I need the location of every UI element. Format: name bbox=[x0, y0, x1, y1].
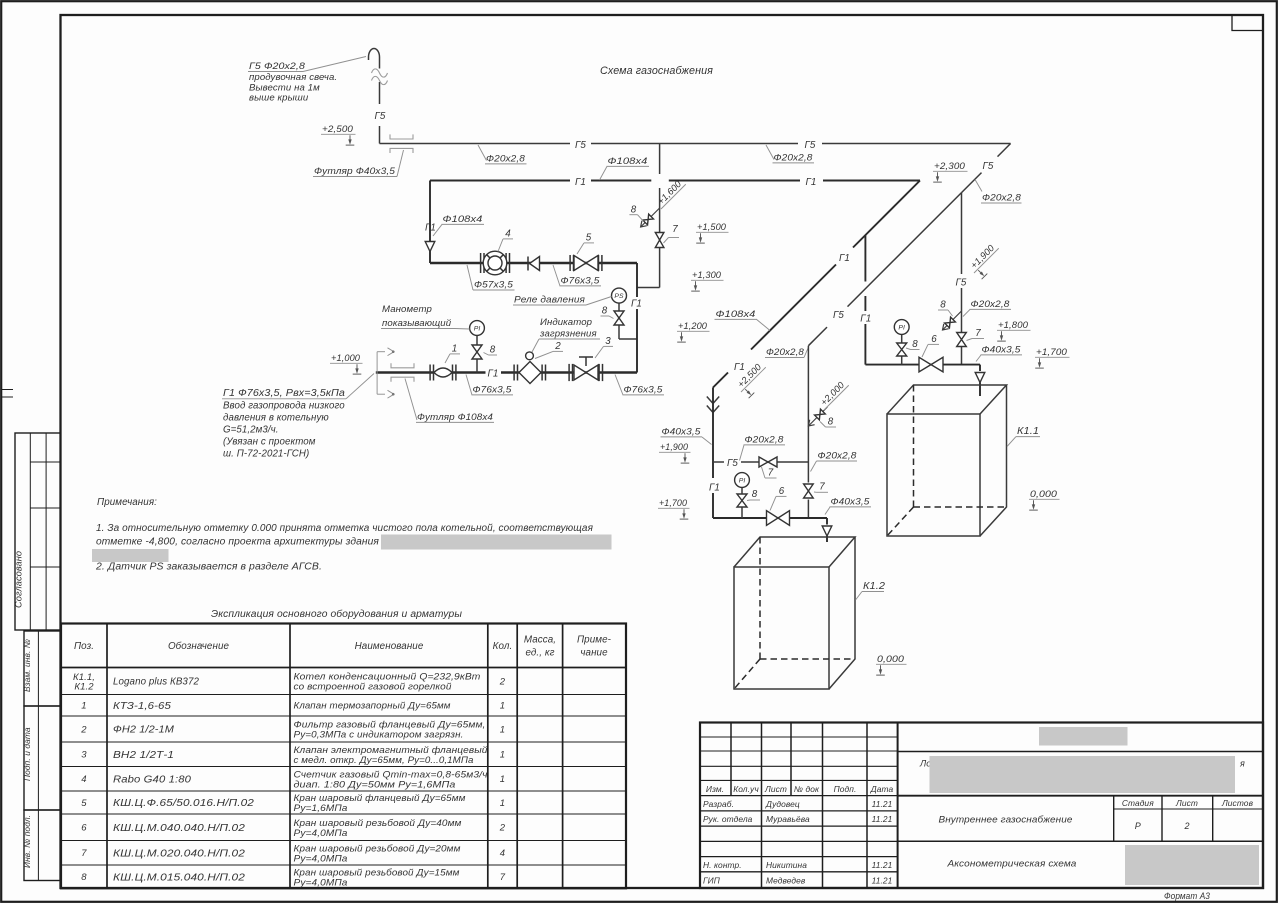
boiler K1.2 top face bbox=[734, 537, 855, 567]
K1.2 manifold pipe bbox=[713, 517, 827, 519]
svg-text:Г5: Г5 bbox=[983, 161, 994, 172]
flow arrows Г1 drop K1.2 bbox=[707, 397, 719, 404]
svg-text:Листов: Листов bbox=[1221, 798, 1254, 808]
svg-text:8: 8 bbox=[752, 489, 758, 500]
svg-text:(Увязан с проектом: (Увязан с проектом bbox=[223, 437, 316, 448]
svg-text:Изм.: Изм. bbox=[706, 784, 724, 794]
svg-text:4: 4 bbox=[81, 774, 86, 785]
svg-text:К1.2: К1.2 bbox=[74, 682, 94, 693]
svg-text:Г1: Г1 bbox=[488, 368, 499, 379]
stamp box Взам. инв. № bbox=[24, 631, 61, 706]
svg-text:5: 5 bbox=[81, 798, 87, 809]
gauge PI K1.2 bbox=[735, 473, 750, 488]
stamp box Подп. и дата bbox=[24, 706, 61, 810]
svg-text:Г5: Г5 bbox=[805, 140, 816, 151]
svg-text:Футляр Ф108х4: Футляр Ф108х4 bbox=[417, 412, 493, 423]
title block outline bbox=[700, 723, 1263, 889]
valve 7 on purge riser bbox=[655, 233, 664, 248]
riser Г1 to boiler K1.1 bbox=[864, 235, 866, 282]
svg-text:Г1: Г1 bbox=[425, 223, 436, 234]
svg-text:КШ.Ц.М.015.040.Н/П.02: КШ.Ц.М.015.040.Н/П.02 bbox=[113, 872, 246, 883]
valve 5 bbox=[574, 256, 598, 271]
redaction box note line 2 bbox=[381, 535, 612, 550]
svg-text:0,000: 0,000 bbox=[877, 654, 905, 664]
pipe break symbol bbox=[372, 69, 388, 77]
svg-text:ш. П-72-2021-ГСН): ш. П-72-2021-ГСН) bbox=[223, 449, 309, 460]
solenoid actuator bbox=[585, 357, 587, 366]
svg-text:Ввод газопровода низкого: Ввод газопровода низкого bbox=[223, 401, 345, 412]
svg-text:11.21: 11.21 bbox=[872, 860, 893, 870]
svg-text:7: 7 bbox=[81, 848, 87, 859]
casing sleeve at roof bbox=[390, 134, 413, 139]
svg-text:отметке -4,800, согласно проек: отметке -4,800, согласно проекта архитек… bbox=[96, 537, 380, 548]
svg-text:Г1 Ф76х3,5, Рвх=3,5кПа: Г1 Ф76х3,5, Рвх=3,5кПа bbox=[223, 388, 346, 399]
svg-text:Ф108х4: Ф108х4 bbox=[443, 214, 483, 225]
svg-text:8: 8 bbox=[940, 300, 946, 311]
pipe Г5 diagonal bbox=[998, 144, 1011, 157]
rotated elevation +1,900 right bbox=[967, 241, 1006, 280]
svg-text:Г5: Г5 bbox=[956, 278, 967, 289]
svg-text:Приме-: Приме- bbox=[577, 635, 612, 646]
svg-text:2: 2 bbox=[554, 341, 561, 352]
gas meter 4 flanges bbox=[480, 253, 482, 273]
boiler K1.2 hidden edges bbox=[759, 537, 761, 659]
svg-text:Г5: Г5 bbox=[375, 111, 386, 122]
svg-text:+1,300: +1,300 bbox=[692, 270, 722, 280]
riser Г5 to K1.2 group bbox=[807, 346, 809, 483]
svg-text:Ф20х2,8: Ф20х2,8 bbox=[982, 193, 1022, 204]
svg-text:загрязнения: загрязнения bbox=[539, 329, 597, 340]
valve 8 K1.1 bbox=[897, 343, 907, 356]
svg-text:7: 7 bbox=[768, 468, 774, 479]
svg-text:Стадия: Стадия bbox=[1122, 798, 1154, 808]
svg-text:8: 8 bbox=[631, 204, 637, 215]
svg-text:6: 6 bbox=[779, 486, 785, 497]
svg-text:Лист: Лист bbox=[764, 784, 787, 794]
valve 8 PS branch bbox=[614, 311, 624, 325]
svg-text:Реле давления: Реле давления bbox=[514, 295, 585, 306]
meter line Г1 bbox=[430, 262, 637, 265]
svg-text:Медведев: Медведев bbox=[766, 875, 806, 885]
stage sheet mini table bbox=[1113, 796, 1115, 842]
svg-text:Инв. № подл.: Инв. № подл. bbox=[22, 815, 32, 868]
svg-text:Лист: Лист bbox=[1175, 798, 1198, 808]
svg-text:7: 7 bbox=[975, 328, 981, 339]
boiler K1.1 top face bbox=[887, 385, 1007, 414]
valve 7 riser K1.1 bbox=[957, 333, 967, 347]
boiler K1.2 right depth edges bbox=[829, 537, 855, 689]
valve 6 K1.2 bbox=[767, 511, 790, 526]
svg-text:Аксонометрическая схема: Аксонометрическая схема bbox=[946, 858, 1076, 869]
solenoid valve 3 flanges bbox=[568, 364, 570, 381]
riser Г1 to K1.2 group bbox=[712, 388, 714, 463]
svg-text:Г5: Г5 bbox=[833, 310, 844, 321]
svg-text:2: 2 bbox=[499, 676, 506, 687]
svg-text:Ру=0,3МПа с индикатором загряз: Ру=0,3МПа с индикатором загрязн. bbox=[294, 730, 464, 741]
drop to K1.2 bbox=[826, 518, 828, 525]
svg-text:+1,200: +1,200 bbox=[678, 321, 708, 331]
svg-text:диап. 1:80 Ду=50мм Ру=1,6МПа: диап. 1:80 Ду=50мм Ру=1,6МПа bbox=[294, 779, 456, 790]
boiler K1.1 hidden edges bbox=[913, 385, 915, 507]
svg-text:продувочная свеча.: продувочная свеча. bbox=[249, 72, 337, 83]
svg-text:Кол.: Кол. bbox=[493, 641, 513, 652]
frame corner tab top-right bbox=[1232, 15, 1263, 31]
svg-text:PS: PS bbox=[614, 293, 624, 300]
title block right part lines bbox=[898, 751, 1263, 753]
svg-text:8: 8 bbox=[602, 306, 608, 317]
svg-text:чание: чание bbox=[580, 648, 608, 659]
svg-text:ФН2 1/2-1М: ФН2 1/2-1М bbox=[113, 725, 175, 736]
svg-text:11.21: 11.21 bbox=[872, 875, 893, 885]
svg-text:Р: Р bbox=[1135, 821, 1141, 831]
redaction box object name bbox=[930, 756, 1236, 793]
svg-text:5: 5 bbox=[586, 233, 592, 244]
svg-text:Ф57х3,5: Ф57х3,5 bbox=[474, 280, 514, 291]
svg-text:7: 7 bbox=[819, 482, 825, 493]
title block left grid bbox=[761, 723, 763, 889]
svg-text:Г1: Г1 bbox=[839, 253, 850, 264]
gauge PI inlet bbox=[470, 321, 485, 336]
svg-text:Ф20х2,8: Ф20х2,8 bbox=[971, 299, 1011, 310]
redaction box document number bbox=[1039, 727, 1128, 746]
svg-text:Примечания:: Примечания: bbox=[97, 497, 157, 508]
svg-text:Ф20х2,8: Ф20х2,8 bbox=[766, 347, 805, 358]
svg-text:7: 7 bbox=[672, 224, 678, 235]
svg-text:4: 4 bbox=[505, 229, 511, 240]
svg-text:+1,700: +1,700 bbox=[1036, 347, 1068, 357]
gauge PI K1.1 bbox=[894, 320, 909, 335]
svg-text:Ру=1,6МПа: Ру=1,6МПа bbox=[294, 803, 348, 814]
svg-text:7: 7 bbox=[500, 872, 506, 883]
svg-text:11.21: 11.21 bbox=[872, 799, 893, 809]
probe valve 8 on purge riser bbox=[641, 208, 660, 227]
svg-text:показывающий: показывающий bbox=[382, 318, 452, 329]
svg-text:Подп.: Подп. bbox=[834, 784, 857, 794]
check valve bbox=[530, 257, 540, 271]
boiler K1.1 front face bbox=[887, 414, 980, 536]
svg-text:+1,500: +1,500 bbox=[697, 222, 727, 232]
svg-text:1: 1 bbox=[500, 798, 505, 809]
svg-text:Г1: Г1 bbox=[734, 362, 745, 373]
svg-text:с медл. откр. Ду=65мм, Ру=0...: с медл. откр. Ду=65мм, Ру=0...0,1МПа bbox=[294, 755, 474, 766]
svg-text:1: 1 bbox=[500, 750, 505, 761]
pipe Г1 diagonal main bbox=[853, 181, 920, 248]
boiler-room wall entry mark bbox=[376, 352, 378, 395]
svg-text:Ру=4,0МПа: Ру=4,0МПа bbox=[294, 828, 348, 839]
probe valve 8 on Г5 riser K1.2 bbox=[808, 407, 827, 426]
svg-text:Ф40х3,5: Ф40х3,5 bbox=[982, 345, 1022, 356]
drop to K1.1 bbox=[979, 365, 981, 371]
svg-text:PI: PI bbox=[898, 325, 905, 332]
pressure switch PS bbox=[612, 288, 627, 303]
svg-text:Кол.уч: Кол.уч bbox=[733, 784, 759, 794]
valve 8 K1.2 bbox=[737, 494, 747, 507]
svg-text:Г1: Г1 bbox=[575, 177, 586, 188]
svg-text:+1,900: +1,900 bbox=[660, 442, 689, 452]
svg-text:КШ.Ц.М.040.040.Н/П.02: КШ.Ц.М.040.040.Н/П.02 bbox=[113, 823, 246, 834]
svg-text:Н. контр.: Н. контр. bbox=[703, 860, 742, 870]
svg-text:ВН2 1/2Т-1: ВН2 1/2Т-1 bbox=[113, 750, 174, 761]
svg-text:8: 8 bbox=[490, 345, 496, 356]
valve 7 riser K1.2 bbox=[804, 484, 814, 498]
valve 6 K1.1 bbox=[919, 357, 943, 372]
pressure relay branch bbox=[618, 303, 620, 311]
svg-text:3: 3 bbox=[605, 336, 611, 347]
svg-text:Г5: Г5 bbox=[575, 140, 586, 151]
svg-text:Ф20х2,8: Ф20х2,8 bbox=[486, 154, 526, 165]
svg-text:К1.1: К1.1 bbox=[1017, 426, 1039, 437]
svg-text:Г1: Г1 bbox=[806, 177, 817, 188]
svg-text:1: 1 bbox=[500, 774, 505, 785]
svg-text:G=51,2м3/ч.: G=51,2м3/ч. bbox=[223, 425, 279, 436]
svg-text:6: 6 bbox=[81, 823, 87, 834]
svg-text:1. За относительную отметку 0.: 1. За относительную отметку 0.000 принят… bbox=[96, 523, 594, 534]
thermal shutoff valve 1 flanges bbox=[429, 365, 431, 381]
svg-text:Индикатор: Индикатор bbox=[540, 317, 593, 328]
svg-text:Ф76х3,5: Ф76х3,5 bbox=[561, 276, 601, 287]
svg-text:Ф20х2,8: Ф20х2,8 bbox=[745, 435, 785, 446]
riser Г5 to boiler K1.1 bbox=[961, 193, 963, 274]
svg-text:4: 4 bbox=[500, 848, 505, 859]
svg-text:Обозначение: Обозначение bbox=[168, 641, 230, 652]
rotated elevation +1,600 on probe bbox=[654, 177, 686, 209]
svg-text:Клапан термозапорный Ду=65мм: Клапан термозапорный Ду=65мм bbox=[294, 701, 451, 712]
svg-text:+2,500: +2,500 bbox=[322, 124, 354, 134]
svg-text:Г1: Г1 bbox=[709, 483, 720, 494]
svg-text:Поз.: Поз. bbox=[74, 641, 94, 652]
svg-text:+2,300: +2,300 bbox=[934, 161, 966, 171]
valve 5 flanges bbox=[569, 255, 571, 271]
svg-text:КШ.Ц.Ф.65/50.016.Н/П.02: КШ.Ц.Ф.65/50.016.Н/П.02 bbox=[113, 798, 255, 809]
probe valve 8 on Г5 riser K1.1 bbox=[943, 311, 962, 330]
svg-text:Ф20х2,8: Ф20х2,8 bbox=[818, 451, 858, 462]
svg-text:Ф40х3,5: Ф40х3,5 bbox=[662, 427, 702, 438]
svg-text:КШ.Ц.М.020.040.Н/П.02: КШ.Ц.М.020.040.Н/П.02 bbox=[113, 848, 246, 859]
svg-text:Наименование: Наименование bbox=[355, 641, 424, 652]
svg-text:8: 8 bbox=[912, 339, 918, 350]
svg-text:Масса,: Масса, bbox=[524, 635, 556, 646]
svg-text:Ф40х3,5: Ф40х3,5 bbox=[831, 497, 871, 508]
svg-text:Ф108х4: Ф108х4 bbox=[716, 309, 756, 320]
svg-text:Дата: Дата bbox=[870, 784, 894, 794]
fold marks left margin bbox=[1, 389, 13, 391]
svg-text:8: 8 bbox=[828, 417, 834, 428]
svg-text:Г1: Г1 bbox=[860, 314, 871, 325]
manometer branch inlet bbox=[476, 336, 478, 346]
stamp box Инв. № подл. bbox=[24, 810, 61, 881]
svg-text:0,000: 0,000 bbox=[1030, 489, 1058, 499]
svg-text:1: 1 bbox=[500, 701, 505, 712]
svg-text:Rabo G40 1:80: Rabo G40 1:80 bbox=[113, 774, 192, 785]
riser Г1 from header to meter line bbox=[429, 181, 431, 264]
filter 2 body bbox=[519, 362, 541, 384]
svg-text:выше крыши: выше крыши bbox=[249, 93, 309, 104]
svg-text:Ф76х3,5: Ф76х3,5 bbox=[624, 385, 664, 396]
svg-text:ед., кг: ед., кг bbox=[525, 648, 554, 659]
svg-text:+1,800: +1,800 bbox=[998, 320, 1029, 330]
svg-text:Ру=4,0МПа: Ру=4,0МПа bbox=[294, 853, 348, 864]
svg-text:Ф76х3,5: Ф76х3,5 bbox=[473, 385, 513, 396]
clog indicator bbox=[526, 352, 534, 360]
svg-text:8: 8 bbox=[81, 872, 87, 883]
svg-text:1: 1 bbox=[452, 344, 458, 355]
svg-text:Рук. отдела: Рук. отдела bbox=[703, 814, 753, 824]
svg-text:Схема газоснабжения: Схема газоснабжения bbox=[600, 65, 713, 77]
svg-text:Г5: Г5 bbox=[727, 458, 738, 469]
svg-text:+1,000: +1,000 bbox=[331, 353, 361, 363]
svg-text:Формат А3: Формат А3 bbox=[1164, 891, 1210, 901]
vent stack pipe Г5 with hook bbox=[369, 49, 380, 69]
gas meter 4 body bbox=[483, 251, 507, 275]
svg-text:Взам. инв. №: Взам. инв. № bbox=[22, 639, 32, 692]
svg-text:Манометр: Манометр bbox=[382, 304, 432, 315]
svg-text:Муравьёва: Муравьёва bbox=[766, 814, 810, 824]
svg-text:PI: PI bbox=[474, 326, 481, 333]
K1.1 manifold pipe bbox=[865, 364, 980, 366]
svg-text:3: 3 bbox=[81, 750, 87, 761]
svg-text:я: я bbox=[1239, 759, 1245, 769]
valve 8 manometer inlet bbox=[472, 345, 482, 359]
pipe Г1 header bbox=[430, 180, 570, 182]
approval stamp box bbox=[15, 433, 61, 630]
svg-text:Г1: Г1 bbox=[631, 299, 642, 310]
thermal shutoff valve 1 body bbox=[434, 368, 452, 377]
rotated elevation +2,000 bbox=[817, 378, 849, 410]
svg-text:Никитина: Никитина bbox=[766, 860, 807, 870]
svg-text:2: 2 bbox=[1183, 821, 1189, 831]
flow arrow on riser bbox=[425, 242, 435, 252]
svg-text:+1,700: +1,700 bbox=[659, 498, 688, 508]
manometer branch K1.1 bbox=[901, 335, 903, 344]
svg-text:2. Датчик PS заказывается в ра: 2. Датчик PS заказывается в разделе АГСВ… bbox=[95, 562, 322, 573]
inlet line Г1 bbox=[376, 371, 486, 374]
manometer branch K1.2 bbox=[741, 488, 743, 495]
svg-text:Ф20х2,8: Ф20х2,8 bbox=[774, 153, 814, 164]
boiler K1.2 front face bbox=[734, 567, 829, 689]
svg-text:1: 1 bbox=[81, 701, 86, 712]
redaction box note line 3 bbox=[92, 549, 169, 562]
svg-text:2: 2 bbox=[499, 823, 506, 834]
casing sleeve at entry bbox=[391, 363, 414, 368]
svg-text:1: 1 bbox=[500, 724, 505, 735]
svg-text:Разраб.: Разраб. bbox=[703, 799, 734, 809]
svg-text:11.21: 11.21 bbox=[872, 814, 893, 824]
boiler K1.1 right depth edges bbox=[980, 385, 1007, 536]
svg-text:Ф108х4: Ф108х4 bbox=[608, 156, 648, 167]
svg-text:КТЗ-1,6-65: КТЗ-1,6-65 bbox=[113, 701, 172, 712]
svg-text:Экспликация основного оборудов: Экспликация основного оборудования и арм… bbox=[211, 608, 463, 620]
redaction box organization bbox=[1125, 845, 1259, 885]
svg-text:давления в котельную: давления в котельную bbox=[223, 413, 329, 424]
svg-text:К1.2: К1.2 bbox=[863, 581, 885, 592]
equipment table grid bbox=[61, 624, 626, 889]
svg-text:Дудовец: Дудовец bbox=[765, 799, 800, 809]
svg-text:№ док: № док bbox=[794, 784, 820, 794]
purge riser Г5 to header bbox=[659, 144, 661, 175]
valve 7 link bbox=[759, 457, 777, 467]
svg-text:со встроенной газовой горелкой: со встроенной газовой горелкой bbox=[294, 682, 453, 693]
svg-text:Г5 Ф20х2,8: Г5 Ф20х2,8 bbox=[249, 61, 306, 72]
jog pipe bbox=[637, 287, 660, 289]
svg-text:2: 2 bbox=[80, 724, 87, 735]
svg-text:6: 6 bbox=[931, 334, 937, 345]
svg-text:PI: PI bbox=[739, 478, 746, 485]
svg-text:Согласовано: Согласовано bbox=[14, 551, 24, 608]
svg-text:Внутреннее газоснабжение: Внутреннее газоснабжение bbox=[939, 814, 1073, 825]
svg-text:Футляр Ф40х3,5: Футляр Ф40х3,5 bbox=[314, 166, 396, 177]
pipe Г5 header bbox=[380, 143, 571, 145]
riser between meter line and inlet line bbox=[636, 263, 638, 297]
svg-text:ГИП: ГИП bbox=[703, 875, 721, 885]
filter 2 flanges bbox=[513, 365, 515, 381]
rotated elevation +2,500 on Г5 diag bbox=[734, 360, 773, 399]
solenoid valve 3 body bbox=[574, 365, 598, 380]
svg-text:Logano plus КВ372: Logano plus КВ372 bbox=[113, 677, 199, 688]
pipe Г5 link K1.2 bbox=[713, 461, 724, 463]
svg-text:Ру=4,0МПа: Ру=4,0МПа bbox=[294, 877, 348, 888]
svg-text:Подп. и дата: Подп. и дата bbox=[22, 727, 32, 781]
